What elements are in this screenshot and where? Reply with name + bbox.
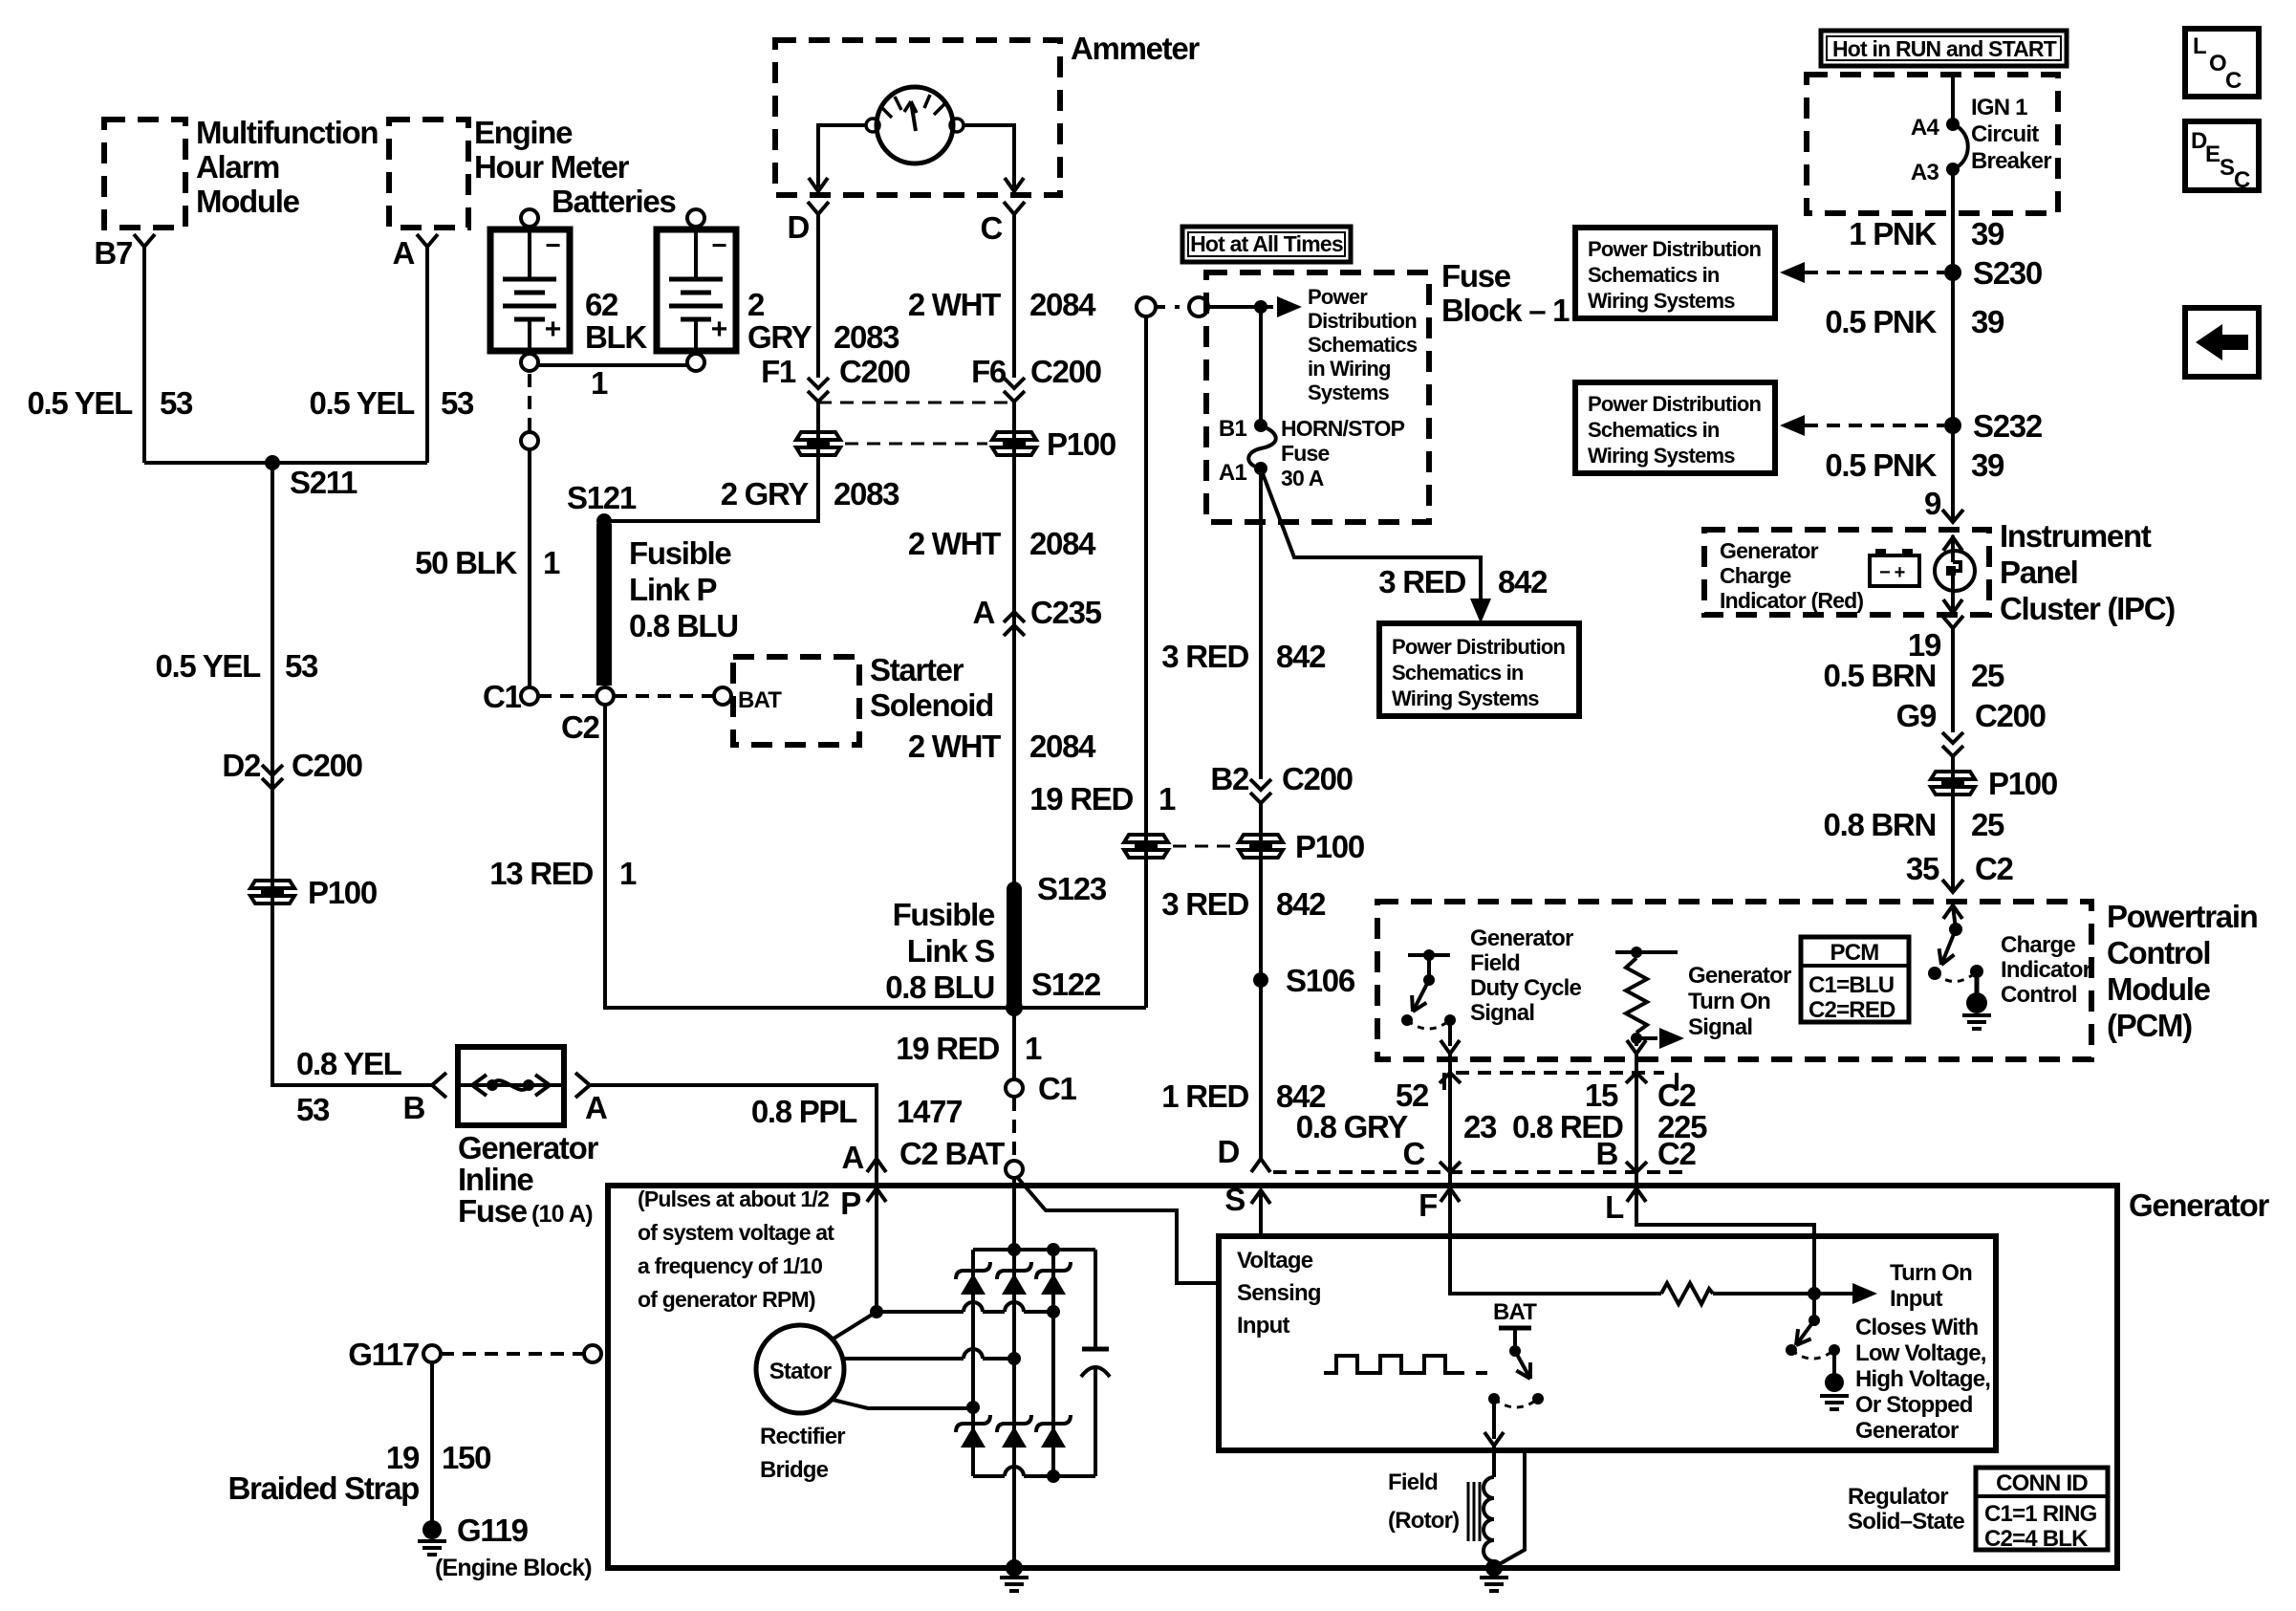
svg-text:19 RED: 19 RED <box>1029 781 1133 816</box>
svg-text:Turn On: Turn On <box>1890 1260 1972 1286</box>
svg-text:P100: P100 <box>308 875 377 910</box>
svg-text:Generator: Generator <box>1720 538 1819 563</box>
grommet P100 on D wire <box>816 402 820 521</box>
svg-text:C2=RED: C2=RED <box>1809 997 1895 1023</box>
svg-text:1 RED: 1 RED <box>1161 1078 1248 1114</box>
gauge circle in IPC <box>1951 535 1955 551</box>
svg-text:53: 53 <box>441 385 474 421</box>
ammeter wire to D terminal <box>818 125 866 187</box>
svg-text:0.8 BRN: 0.8 BRN <box>1824 807 1936 842</box>
pin L arrow into generator <box>1627 1188 1646 1202</box>
icon battery charge telltale <box>1870 555 1919 586</box>
svg-text:3 RED: 3 RED <box>1378 564 1465 599</box>
svg-text:Signal: Signal <box>1688 1014 1752 1040</box>
svg-text:Hot in RUN and START: Hot in RUN and START <box>1832 36 2057 61</box>
wire F inside generator to turn on <box>1450 1188 1661 1294</box>
wire braided strap 19 150 <box>430 1362 434 1522</box>
svg-text:Wiring Systems: Wiring Systems <box>1588 289 1735 313</box>
svg-text:C2=4 BLK: C2=4 BLK <box>1984 1526 2089 1552</box>
svg-text:35: 35 <box>1906 851 1939 886</box>
wire 0.5 BRN 25 <box>1951 628 1955 732</box>
svg-text:Low Voltage,: Low Voltage, <box>1855 1340 1986 1366</box>
terminal A3 <box>1946 163 1960 176</box>
module Multifunction Alarm Module (dashed box) <box>104 120 185 228</box>
svg-text:S230: S230 <box>1973 255 2042 291</box>
ground at rectifier <box>1006 1559 1023 1577</box>
square wave symbol <box>1324 1356 1464 1373</box>
switch field drive <box>1515 1351 1530 1379</box>
wire 0.5 PNK 39 S230-S232 <box>1951 272 1955 425</box>
svg-text:O: O <box>2209 51 2226 76</box>
svg-text:F1: F1 <box>761 354 796 389</box>
wire 19 RED 1 S122 to C1 <box>1012 1008 1016 1079</box>
svg-text:Rectifier: Rectifier <box>760 1424 845 1449</box>
svg-text:1: 1 <box>1159 781 1176 816</box>
svg-text:C2: C2 <box>1975 851 2014 886</box>
svg-text:S106: S106 <box>1286 963 1355 998</box>
legend DESC box <box>2185 121 2259 190</box>
svg-text:S211: S211 <box>290 465 357 500</box>
svg-text:Cluster (IPC): Cluster (IPC) <box>2000 591 2175 626</box>
svg-text:13 RED: 13 RED <box>489 856 593 891</box>
wire 1 PNK 39 <box>1951 169 1955 272</box>
svg-text:Generator: Generator <box>1688 963 1791 989</box>
svg-text:62: 62 <box>585 287 618 322</box>
svg-text:A: A <box>972 595 994 630</box>
svg-text:Block – 1: Block – 1 <box>1441 293 1570 328</box>
terminal BAT ring starter solenoid <box>714 687 731 705</box>
pin 9 fork into IPC <box>1942 510 1963 522</box>
svg-text:Instrument: Instrument <box>2000 518 2152 554</box>
fusible link P 0.8 BLU <box>596 524 612 686</box>
svg-text:3 RED: 3 RED <box>1161 639 1248 674</box>
pin A connector C2 chevron <box>867 1159 886 1172</box>
svg-text:Power Distribution: Power Distribution <box>1588 392 1762 416</box>
svg-text:(Pulses at about 1/2: (Pulses at about 1/2 <box>638 1186 829 1211</box>
resistor turn on input <box>1661 1283 1713 1304</box>
wire 50 BLK 1 battery to C1 <box>528 374 531 432</box>
dashed generator connector line <box>1273 1170 1441 1174</box>
circuit breaker element <box>1953 124 1968 169</box>
table PCM connector colors <box>1801 937 1909 1022</box>
dashed link S230 to PDS box <box>1805 271 1944 274</box>
svg-text:A: A <box>585 1090 607 1125</box>
svg-text:+: + <box>711 314 727 345</box>
field rotor coil <box>1484 1477 1494 1561</box>
svg-text:HORN/STOP: HORN/STOP <box>1281 416 1405 441</box>
splice S123 <box>1007 882 1022 897</box>
wire A 0.5 YEL 53 <box>425 247 429 463</box>
svg-text:0.8 PPL: 0.8 PPL <box>751 1094 857 1129</box>
svg-text:A: A <box>392 235 414 271</box>
svg-text:Field: Field <box>1388 1469 1438 1495</box>
connector rings hot feed <box>1137 297 1156 316</box>
svg-text:A3: A3 <box>1911 160 1939 185</box>
svg-text:Indicator: Indicator <box>2001 957 2091 983</box>
svg-text:(PCM): (PCM) <box>2107 1008 2192 1043</box>
svg-text:(Rotor): (Rotor) <box>1388 1508 1459 1534</box>
svg-text:C2: C2 <box>561 709 600 745</box>
switch turn on to ground <box>1812 1294 1816 1316</box>
switch charge indicator control <box>1943 905 1962 919</box>
connector C200 pin G9 chevrons <box>1942 732 1963 756</box>
svg-text:B1: B1 <box>1219 416 1247 442</box>
svg-text:Alarm: Alarm <box>196 149 279 185</box>
svg-text:C2: C2 <box>1657 1136 1697 1171</box>
terminal A1 <box>1254 462 1267 475</box>
svg-text:3 RED: 3 RED <box>1161 886 1248 922</box>
svg-text:150: 150 <box>442 1440 490 1475</box>
svg-text:Closes With: Closes With <box>1855 1315 1978 1340</box>
svg-text:2 WHT: 2 WHT <box>908 526 1001 561</box>
svg-text:Circuit: Circuit <box>1971 121 2039 147</box>
svg-text:Generator: Generator <box>458 1130 598 1165</box>
svg-text:Fuse: Fuse <box>458 1193 528 1229</box>
wire dashed C1 to BAT stud <box>1012 1098 1016 1161</box>
wire L inside generator <box>1636 1188 1814 1294</box>
svg-text:39: 39 <box>1971 216 2004 251</box>
svg-text:2 GRY: 2 GRY <box>721 476 810 512</box>
wire 3 RED 842 down from A1 <box>1259 468 1263 779</box>
svg-text:B2: B2 <box>1210 761 1249 796</box>
stator winding 1 to bridge <box>834 1312 877 1339</box>
svg-text:C200: C200 <box>1030 354 1101 389</box>
svg-text:(10 A): (10 A) <box>531 1201 593 1228</box>
terminal BAT stud ring <box>1006 1161 1023 1178</box>
svg-text:Wiring Systems: Wiring Systems <box>1392 686 1539 710</box>
svg-text:C200: C200 <box>292 748 362 783</box>
svg-text:A: A <box>841 1140 863 1175</box>
wire S211 to P100 0.5 YEL 53 <box>271 463 274 1085</box>
svg-text:1: 1 <box>591 365 608 401</box>
svg-text:C1: C1 <box>483 679 522 714</box>
svg-text:23: 23 <box>1463 1109 1497 1144</box>
battery 1 <box>521 209 538 227</box>
svg-text:D: D <box>1217 1134 1239 1169</box>
svg-text:Sensing: Sensing <box>1237 1280 1321 1306</box>
svg-text:Duty Cycle: Duty Cycle <box>1470 975 1581 1001</box>
svg-text:Schematics in: Schematics in <box>1588 263 1720 287</box>
svg-text:C2: C2 <box>1657 1078 1697 1113</box>
pin 35 fork into PCM <box>1942 880 1963 892</box>
splice S121 <box>596 513 612 529</box>
svg-text:P100: P100 <box>1295 829 1364 864</box>
svg-text:of system voltage at: of system voltage at <box>638 1220 834 1245</box>
svg-text:L: L <box>2193 33 2206 59</box>
svg-text:Indicator (Red): Indicator (Red) <box>1720 588 1863 613</box>
svg-text:1 PNK: 1 PNK <box>1849 216 1937 251</box>
svg-text:842: 842 <box>1498 564 1548 599</box>
module Starter Solenoid (dashed box) <box>733 657 859 745</box>
banner Hot at All Times <box>1182 227 1351 262</box>
svg-text:842: 842 <box>1276 639 1326 674</box>
svg-text:Schematics in: Schematics in <box>1392 661 1524 685</box>
svg-text:Module: Module <box>196 184 300 219</box>
svg-text:F6: F6 <box>971 354 1007 389</box>
ammeter wire to C terminal <box>964 125 1014 187</box>
svg-text:9: 9 <box>1924 486 1941 521</box>
svg-text:C: C <box>980 210 1002 246</box>
svg-text:Schematics in: Schematics in <box>1588 418 1720 442</box>
svg-text:Schematics: Schematics <box>1308 333 1418 357</box>
svg-text:53: 53 <box>296 1092 330 1127</box>
svg-text:0.5 YEL: 0.5 YEL <box>309 385 415 421</box>
dashed connector link F1-F6 <box>818 402 1014 404</box>
svg-text:Powertrain: Powertrain <box>2107 899 2258 934</box>
svg-text:of generator RPM): of generator RPM) <box>638 1287 815 1312</box>
svg-text:a frequency of 1/10: a frequency of 1/10 <box>638 1253 822 1278</box>
svg-text:Starter: Starter <box>870 652 964 687</box>
battery 2 <box>687 209 704 227</box>
svg-text:C1=BLU: C1=BLU <box>1809 972 1894 998</box>
svg-text:25: 25 <box>1971 807 2004 842</box>
svg-text:High Voltage,: High Voltage, <box>1855 1366 1990 1392</box>
svg-text:B: B <box>1595 1136 1617 1171</box>
grommet P100 on 3 RED wire <box>1259 803 1263 1159</box>
svg-text:Input: Input <box>1237 1313 1289 1339</box>
wire dashed C1 to C2 <box>538 694 596 698</box>
svg-text:Fuse: Fuse <box>1281 441 1329 466</box>
connector C200 pin B2 chevrons <box>1250 779 1271 803</box>
grommet P100 on C wire <box>1012 402 1016 889</box>
box Power Distribution Schematics in Wiring Systems (S232) <box>1575 382 1775 473</box>
svg-text:BLK: BLK <box>585 319 647 355</box>
ground at field <box>1485 1559 1503 1577</box>
svg-text:0.5 PNK: 0.5 PNK <box>1825 304 1937 339</box>
chevrons at connector C2 <box>1440 1073 1461 1083</box>
svg-text:Fusible: Fusible <box>893 897 995 932</box>
module Powertrain Control Module (dashed box) <box>1377 902 2091 1059</box>
svg-text:C: C <box>2225 68 2242 94</box>
wire 62 BLK 1 between batteries <box>538 363 687 367</box>
svg-text:1477: 1477 <box>897 1094 962 1129</box>
svg-text:Ammeter: Ammeter <box>1071 31 1200 66</box>
svg-text:G9: G9 <box>1896 698 1937 733</box>
svg-text:Voltage: Voltage <box>1237 1248 1313 1274</box>
splice S230 <box>1944 264 1961 281</box>
svg-text:C200: C200 <box>1282 761 1353 796</box>
svg-text:A4: A4 <box>1911 115 1940 141</box>
connector C200 F6 chevrons <box>1004 378 1025 402</box>
fusible link S 0.8 BLU <box>1007 889 1022 1004</box>
wire BAT diagonal to voltage sensing <box>1017 1177 1219 1283</box>
pin B7 connector fork <box>134 234 155 247</box>
table CONN ID <box>1976 1468 2108 1550</box>
svg-text:BAT: BAT <box>1493 1299 1537 1325</box>
svg-text:1: 1 <box>543 545 560 580</box>
svg-text:Generator: Generator <box>1855 1418 1959 1444</box>
rectifier bridge legs <box>971 1250 975 1476</box>
banner Hot in RUN and START <box>1821 31 2067 66</box>
dashed grommet link P100 <box>1173 845 1234 848</box>
svg-text:Or Stopped: Or Stopped <box>1855 1392 1973 1418</box>
dashed grommet link and P100 label <box>845 443 987 446</box>
svg-text:2 WHT: 2 WHT <box>908 729 1001 764</box>
rectifier bridge rails <box>973 1248 1095 1252</box>
svg-text:IGN 1: IGN 1 <box>1971 95 2027 120</box>
svg-text:0.8 GRY: 0.8 GRY <box>1296 1109 1409 1144</box>
svg-text:D: D <box>787 209 809 245</box>
connector C200 F1 chevrons <box>808 378 829 402</box>
fuse HORN/STOP 30A element <box>1248 425 1276 468</box>
svg-text:Inline: Inline <box>458 1162 533 1197</box>
svg-text:Link P: Link P <box>629 572 717 607</box>
svg-text:Signal: Signal <box>1470 1000 1534 1026</box>
wire field drive down <box>1492 1399 1496 1439</box>
grommet P100 on 19 RED wire <box>1124 835 1168 842</box>
svg-text:P: P <box>840 1186 860 1221</box>
svg-text:Power: Power <box>1308 285 1368 309</box>
resistor generator turn on <box>1615 950 1678 954</box>
svg-text:Stator: Stator <box>769 1359 832 1384</box>
svg-text:15: 15 <box>1585 1078 1618 1113</box>
svg-text:Hour Meter: Hour Meter <box>474 149 630 185</box>
svg-text:1: 1 <box>619 856 637 891</box>
wire regulator right leg to ground <box>1496 1450 1525 1566</box>
svg-text:C200: C200 <box>839 354 910 389</box>
stator winding 2 to bridge <box>844 1357 964 1361</box>
svg-text:0.8 BLU: 0.8 BLU <box>885 969 994 1005</box>
svg-text:P100: P100 <box>1047 426 1116 462</box>
pin P arrow and wire <box>867 1188 886 1202</box>
svg-text:Charge: Charge <box>1720 563 1790 588</box>
svg-text:G117: G117 <box>348 1337 419 1372</box>
connector C200 pin D2 chevrons <box>262 765 283 789</box>
ground G119 engine block <box>422 1520 442 1539</box>
stator <box>756 1325 844 1413</box>
wire 0.8 RED 225 PCM B to generator L <box>1635 1054 1638 1186</box>
svg-text:2084: 2084 <box>1029 287 1096 322</box>
svg-text:0.8 BLU: 0.8 BLU <box>629 608 738 643</box>
svg-text:+: + <box>545 314 561 345</box>
svg-text:C: C <box>2234 167 2250 193</box>
wire 0.5 PNK 39 to IPC <box>1951 425 1955 522</box>
module Ammeter (dashed box) <box>775 40 1060 195</box>
svg-text:B: B <box>402 1090 424 1125</box>
pin A connector fork <box>417 234 438 247</box>
svg-text:2083: 2083 <box>834 319 899 355</box>
svg-text:Panel: Panel <box>2000 555 2078 590</box>
svg-text:PCM: PCM <box>1830 940 1879 966</box>
wire to fuse B1 <box>1259 307 1263 425</box>
stator winding 3 to bridge <box>833 1400 973 1408</box>
diodes top row <box>956 1262 990 1279</box>
pin S arrow inside generator <box>1251 1190 1270 1204</box>
terminal A4 <box>1946 118 1960 131</box>
fuse Generator Inline Fuse 10A <box>432 1073 446 1098</box>
wire 19 RED down from ring <box>1144 316 1148 1008</box>
svg-text:Wiring Systems: Wiring Systems <box>1588 444 1735 468</box>
svg-text:Breaker: Breaker <box>1971 148 2051 174</box>
svg-text:Generator: Generator <box>1470 925 1573 951</box>
svg-text:Link S: Link S <box>907 933 995 969</box>
svg-text:Control: Control <box>2001 982 2077 1008</box>
svg-text:C1=1 RING: C1=1 RING <box>1984 1501 2097 1527</box>
svg-text:53: 53 <box>285 648 318 684</box>
svg-text:(Engine Block): (Engine Block) <box>435 1555 592 1581</box>
box Power Distribution Schematics in Wiring Systems (below fuse) <box>1379 623 1579 716</box>
terminal B1 <box>1254 419 1267 432</box>
wire hot feed into fuse block <box>1208 305 1273 309</box>
pin C fork <box>1004 202 1025 214</box>
wire 13 RED 1 from C2 to S122 <box>605 705 1004 1008</box>
svg-text:Power Distribution: Power Distribution <box>1588 237 1762 261</box>
svg-text:2084: 2084 <box>1029 526 1096 561</box>
svg-text:−: − <box>711 230 726 260</box>
wire 2 GRY 2083 D to F1 <box>816 214 820 378</box>
svg-text:C: C <box>1402 1136 1424 1171</box>
grommet P100 on BRN wire <box>1951 757 1955 889</box>
svg-text:1: 1 <box>1025 1031 1042 1066</box>
svg-text:Solid–State: Solid–State <box>1848 1509 1964 1535</box>
dashed connector box C2 between PCM and generator <box>1442 1073 1446 1090</box>
pin 19 fork below IPC <box>1942 616 1963 628</box>
box Power Distribution Schematics in Wiring Systems (S230) <box>1575 228 1775 318</box>
svg-text:Turn On: Turn On <box>1688 989 1770 1014</box>
svg-text:Charge: Charge <box>2001 932 2075 958</box>
svg-text:30 A: 30 A <box>1281 466 1324 490</box>
svg-text:CONN ID: CONN ID <box>1996 1470 2088 1496</box>
svg-text:Solenoid: Solenoid <box>870 687 993 723</box>
svg-text:2: 2 <box>747 287 765 322</box>
svg-text:Control: Control <box>2107 935 2210 970</box>
svg-text:Field: Field <box>1470 950 1520 976</box>
module Instrument Panel Cluster (dashed box) <box>1704 530 1989 615</box>
svg-text:Engine: Engine <box>474 115 573 150</box>
module Fuse Block - 1 (dashed box) <box>1206 272 1429 522</box>
diodes bottom row <box>956 1415 990 1432</box>
svg-text:in Wiring: in Wiring <box>1308 357 1391 381</box>
wire 0.8 PPL 1477 fuse to P <box>590 1085 877 1186</box>
svg-text:Hot at All Times: Hot at All Times <box>1190 231 1343 256</box>
legend LOC box <box>2185 29 2259 97</box>
svg-text:842: 842 <box>1276 886 1326 922</box>
connector C1 ring to generator <box>1006 1079 1023 1097</box>
wire 0.8 YEL 53 to fuse B <box>272 892 432 1085</box>
svg-text:B7: B7 <box>94 235 132 271</box>
switch generator field duty cycle <box>1408 953 1450 957</box>
svg-text:Input: Input <box>1890 1286 1942 1312</box>
wire S211 horizontal <box>144 461 427 465</box>
wire 3 RED 842 fuse output branch to PDS <box>1261 468 1481 602</box>
svg-text:C200: C200 <box>1975 698 2046 733</box>
svg-text:Regulator: Regulator <box>1848 1484 1948 1510</box>
module Voltage Sensing Input regulator box <box>1219 1236 1996 1450</box>
svg-text:S: S <box>2220 155 2235 181</box>
pin D fork <box>808 202 829 214</box>
wire dashed C2 to starter solenoid BAT <box>614 694 714 698</box>
svg-text:C2 BAT: C2 BAT <box>899 1136 1005 1171</box>
module IGN 1 Circuit Breaker (dashed box) <box>1807 75 2058 213</box>
pin D chevron into generator <box>1251 1159 1270 1172</box>
splice S106 <box>1253 972 1268 988</box>
svg-text:D2: D2 <box>222 748 261 783</box>
module Generator (solid box) <box>608 1186 2117 1568</box>
splice S211 <box>265 455 280 470</box>
svg-text:53: 53 <box>160 385 193 421</box>
svg-text:39: 39 <box>1971 304 2004 339</box>
svg-text:Generator: Generator <box>2129 1187 2269 1223</box>
svg-text:Braided Strap: Braided Strap <box>228 1470 420 1506</box>
capacitor <box>1094 1250 1097 1349</box>
svg-text:52: 52 <box>1396 1078 1429 1113</box>
svg-text:S232: S232 <box>1973 408 2043 444</box>
svg-text:− +: − + <box>1879 562 1905 583</box>
splice S122 <box>1006 999 1023 1016</box>
svg-text:S121: S121 <box>567 480 637 515</box>
svg-text:25: 25 <box>1971 658 2004 693</box>
svg-text:39: 39 <box>1971 447 2004 483</box>
